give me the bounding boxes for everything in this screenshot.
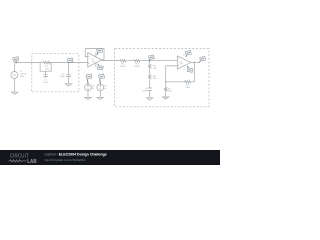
resistor R4: [149, 64, 151, 69]
V3 label: [104, 86, 107, 90]
svg-text:1kΩ: 1kΩ: [153, 78, 157, 80]
R3 label: [134, 63, 140, 67]
footer bar: [0, 150, 220, 165]
svg-text:http://circuitlab.com/c/4hp6e8: http://circuitlab.com/c/4hp6e8b2: [44, 158, 85, 162]
flag F10 (Vout): [200, 56, 206, 62]
voltage source V1: [11, 63, 18, 93]
svg-text:10uF: 10uF: [60, 76, 66, 78]
wire C4-ground: [149, 90, 151, 97]
resistor R6: [184, 81, 191, 84]
op-amp U1 (voltage follower): [85, 49, 104, 68]
wire: U1 output to stage 2: [101, 60, 119, 62]
svg-text:1kΩ: 1kΩ: [168, 91, 172, 93]
flag F7: [149, 55, 155, 61]
node dot: [68, 62, 69, 63]
resistor R3: [134, 59, 141, 62]
ground (V3): [97, 97, 103, 99]
svg-text:Gabriel / ELEC2004 Design Chal: Gabriel / ELEC2004 Design Challenge: [44, 153, 107, 157]
flag F5 (VDD): [86, 74, 92, 84]
flag F9 (U2 V-): [187, 66, 193, 72]
wire R7-ground: [165, 92, 167, 97]
wire R2-R3: [126, 60, 133, 62]
DC source V2: [85, 84, 92, 98]
svg-text:10kΩ: 10kΩ: [185, 87, 191, 89]
wire R5-C4: [149, 79, 151, 88]
svg-text:1kΩ: 1kΩ: [45, 68, 49, 70]
flag F3 (U1 V+): [97, 48, 103, 54]
wire: C1 parallel loop: [40, 63, 51, 78]
ground (chain): [147, 98, 153, 100]
feedback: right segment: [191, 81, 194, 83]
flag F2 node: [67, 58, 73, 63]
wire: shunt chain: [149, 61, 151, 64]
R7 label: [168, 88, 172, 92]
C2 label: [60, 74, 66, 78]
resistor R1: [42, 61, 50, 64]
U1 label: [92, 59, 96, 63]
ground (V2): [85, 97, 91, 99]
capacitor C1: [43, 75, 47, 77]
dashed box: input RC filter stage: [32, 54, 79, 92]
svg-text:1kΩ: 1kΩ: [153, 68, 157, 70]
svg-text:10kΩ: 10kΩ: [134, 66, 140, 68]
wire: U2 output: [191, 61, 200, 63]
svg-text:10kΩ: 10kΩ: [120, 66, 126, 68]
C4 label: [142, 88, 148, 92]
wire: V1 to R1: [15, 62, 43, 64]
R1 label: [45, 66, 49, 70]
R6 label: [185, 84, 191, 88]
power pin stubs: [95, 52, 97, 67]
V2 label: [92, 86, 95, 90]
capacitor C2: [66, 75, 71, 77]
U2 input polarity marks: [178, 59, 179, 66]
node dot: [149, 60, 150, 61]
op-amp U2: [177, 54, 191, 70]
wire: shunt cap branch: [68, 63, 70, 84]
capacitor C4: [148, 88, 152, 90]
svg-text:LAB: LAB: [27, 159, 37, 165]
resistor R2: [119, 59, 126, 62]
wire R3 to U2 +in: [140, 60, 177, 62]
dashed box: filter + amplifier stage: [115, 49, 209, 107]
wire: inverting input: [166, 66, 178, 82]
ground (V1): [12, 92, 18, 94]
R5 label: [153, 76, 157, 80]
feedback: left segment: [166, 81, 185, 83]
ground (C2): [65, 84, 71, 86]
CircuitLab logo: [9, 153, 37, 165]
flag F8 (U2 V+): [185, 51, 191, 57]
wire to R7: [165, 82, 167, 87]
flag F1 node Vin: [13, 57, 19, 63]
svg-text:10nF: 10nF: [43, 82, 49, 84]
resistor R7: [165, 87, 167, 92]
R4 label: [153, 66, 157, 70]
flag F4 (U1 V-): [97, 64, 103, 70]
wire: R1 to op-amp U1 +in: [49, 62, 88, 64]
feedback: down wire: [194, 62, 196, 82]
flag F6 (VSS): [98, 74, 104, 84]
svg-text:1kHz: 1kHz: [20, 76, 25, 78]
U1 input polarity marks: [88, 57, 89, 64]
R2 label: [120, 63, 126, 67]
wire R4-R5: [149, 69, 151, 74]
V1 value label: [20, 71, 27, 78]
DC source V3: [97, 84, 104, 98]
ground (R7): [163, 97, 169, 99]
U2 label: [180, 61, 184, 65]
resistor R5: [149, 74, 151, 79]
svg-text:10nF: 10nF: [142, 91, 148, 93]
feedback loop wire: [85, 49, 104, 60]
C1 label: [43, 79, 49, 83]
